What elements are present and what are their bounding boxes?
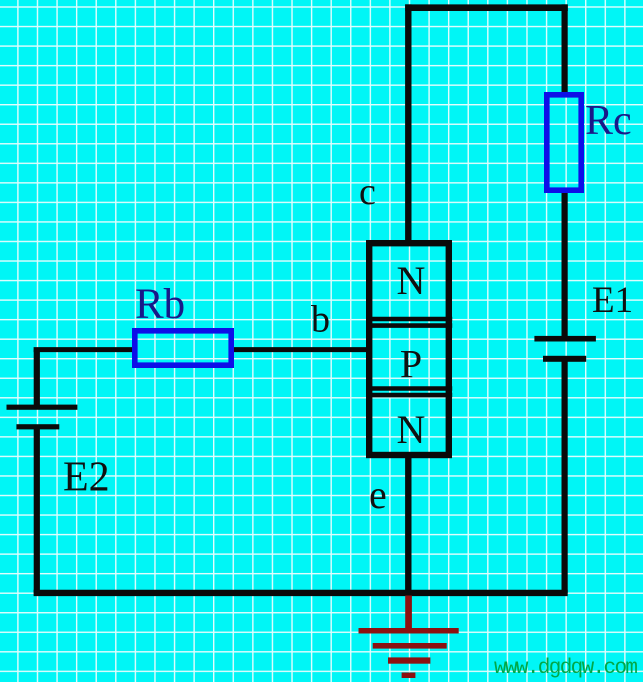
battery E1 negative plate (short)	[543, 356, 586, 362]
wire: base horizontal, left rail to Rb	[34, 347, 134, 352]
ground bar 3	[388, 657, 430, 663]
resistor Rc	[547, 95, 581, 190]
wire: right vertical, E1 down to bottom wire	[561, 359, 567, 593]
wire: collector vertical from top wire down to transistor	[405, 4, 411, 243]
battery E2 negative plate (short)	[16, 424, 59, 429]
resistor Rb	[135, 331, 231, 365]
wire: base horizontal, Rb to transistor base	[232, 347, 369, 352]
transistor junction line 2 (N/P lower)	[366, 323, 452, 328]
wire: emitter vertical, transistor down to bottom rail	[405, 455, 411, 593]
battery E2 positive plate (long)	[7, 405, 78, 410]
wire: right vertical, Rc down to battery E1	[561, 190, 567, 340]
transistor junction line 3 (P/N upper)	[366, 386, 452, 391]
battery E1 positive plate (long)	[534, 336, 596, 342]
transistor Q1 outer box	[369, 243, 449, 455]
transistor junction line 4 (P/N lower)	[366, 393, 452, 398]
wire: bottom horizontal rail	[34, 590, 568, 596]
svg-text:Rc: Rc	[585, 98, 632, 144]
ground bar 2	[373, 643, 447, 649]
wire: top horizontal (collector loop top)	[405, 4, 568, 11]
ground stub wire	[405, 596, 412, 632]
svg-text:N: N	[397, 258, 426, 303]
wire: left vertical, E2 down to bottom wire	[34, 427, 40, 593]
svg-text:Rb: Rb	[135, 281, 185, 328]
svg-text:e: e	[369, 472, 387, 517]
svg-text:www.dgdqw.com: www.dgdqw.com	[494, 657, 638, 680]
svg-text:N: N	[397, 407, 426, 452]
ground bar 4 (shortest)	[402, 673, 416, 679]
ground bar 1 (widest)	[359, 628, 459, 634]
svg-text:b: b	[311, 299, 330, 341]
transistor junction line 1 (N/P upper)	[366, 317, 452, 322]
wire: left vertical, base wire down to battery E2	[34, 350, 40, 407]
wire: right vertical, top wire down to Rc	[561, 4, 567, 96]
svg-text:E1: E1	[592, 280, 633, 321]
svg-text:E2: E2	[63, 455, 110, 501]
svg-text:c: c	[359, 171, 376, 213]
svg-text:P: P	[400, 342, 422, 387]
